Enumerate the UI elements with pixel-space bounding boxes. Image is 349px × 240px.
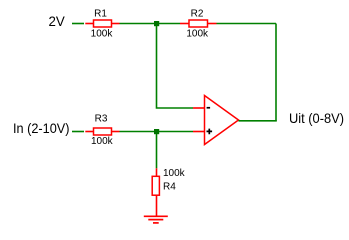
label R2: [191, 9, 204, 20]
resistor R1: [85, 20, 119, 27]
value 100k (R2): [186, 28, 209, 39]
resistor R4: [152, 168, 159, 215]
wire feedback vertical down to output: [275, 24, 277, 121]
svg-text:2V: 2V: [49, 13, 66, 29]
label R3: [95, 113, 108, 124]
label R4: [163, 181, 176, 192]
value 100k (R4): [163, 168, 186, 179]
resistor R2: [180, 20, 217, 27]
op-amp U1: [193, 96, 239, 145]
wire In to R3: [72, 131, 84, 133]
wire node A to R2: [159, 23, 180, 25]
svg-text:Uit (0-8V): Uit (0-8V): [289, 110, 344, 126]
svg-text:R2: R2: [191, 9, 204, 20]
wire node B to non-inverting input: [159, 131, 193, 133]
wire op-amp output to Uit: [239, 120, 277, 122]
svg-text:R4: R4: [163, 181, 176, 192]
svg-text:In (2-10V): In (2-10V): [13, 120, 70, 136]
wire node A down to inverting input: [157, 26, 194, 108]
label R1: [94, 9, 107, 20]
wire node B down to R4: [156, 134, 158, 168]
resistor R3: [85, 128, 119, 135]
label Uit output net: [289, 110, 344, 126]
wire 2V to R1: [72, 23, 84, 25]
value 100k (R3): [91, 136, 114, 147]
svg-text:100k: 100k: [91, 28, 114, 39]
svg-text:100k: 100k: [186, 28, 209, 39]
node B junction R3/R4: [154, 129, 159, 134]
wire R2 to feedback corner: [217, 23, 277, 25]
label In input net: [13, 120, 70, 136]
svg-text:R1: R1: [94, 9, 107, 20]
svg-text:100k: 100k: [91, 136, 114, 147]
svg-text:R3: R3: [95, 113, 108, 124]
label 2V input net: [49, 13, 66, 29]
ground: [144, 216, 168, 223]
node A junction R1/R2: [154, 21, 159, 26]
wire R3 to node B: [120, 131, 155, 133]
value 100k (R1): [91, 28, 114, 39]
wire R1 to node A: [120, 23, 155, 25]
svg-text:100k: 100k: [163, 168, 186, 179]
